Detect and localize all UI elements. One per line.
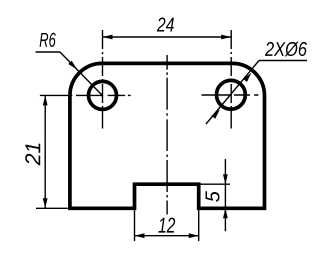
dimension 5 text xyxy=(206,191,220,202)
dimension 21 bottom extension line xyxy=(36,207,68,209)
leader 2X dia6 arrowhead upper xyxy=(243,73,251,82)
dimension 24 arrow right xyxy=(221,35,231,40)
leader R6 arrowhead xyxy=(68,61,77,70)
dimension 12 arrow right xyxy=(189,233,199,238)
dimension 12 arrow left xyxy=(135,233,145,238)
part outline xyxy=(70,63,265,208)
dimension 5 line xyxy=(224,159,226,231)
label R6 xyxy=(40,33,56,47)
leader 2X dia6 shoulder xyxy=(259,60,307,62)
dimension 12 line xyxy=(135,235,199,237)
centerline vertical left hole xyxy=(102,30,104,129)
dimension 24 arrow left xyxy=(103,35,113,40)
hole right xyxy=(217,80,246,109)
leader R6 shoulder xyxy=(36,51,60,53)
leader 2X dia6 line xyxy=(206,61,259,125)
dimension 12 extension left xyxy=(134,210,136,241)
centerline vertical middle axis xyxy=(166,55,168,215)
dimension 21 text xyxy=(25,144,40,166)
dimension 12 extension right xyxy=(198,210,200,241)
label 2X dia 6 xyxy=(265,42,307,57)
leader 2X dia6 arrowhead lower xyxy=(212,110,220,119)
dimension 5 arrow bottom xyxy=(223,208,228,218)
hole left xyxy=(89,81,117,109)
leader R6 line xyxy=(60,52,103,96)
centerline horizontal left hole + ext for dim 21 xyxy=(40,94,131,96)
dimension 21 arrow bottom xyxy=(43,198,48,208)
centerline vertical right hole xyxy=(230,30,232,129)
dimension 5 extension top xyxy=(199,183,230,185)
dimension 12 text xyxy=(158,218,175,233)
centerline horizontal right hole xyxy=(202,94,259,96)
dimension 5 arrow top xyxy=(223,174,228,184)
dimension 24 line xyxy=(103,36,232,38)
dimension 24 text xyxy=(157,18,174,32)
dimension 21 line xyxy=(44,95,46,208)
dimension 21 arrow top xyxy=(43,95,48,105)
